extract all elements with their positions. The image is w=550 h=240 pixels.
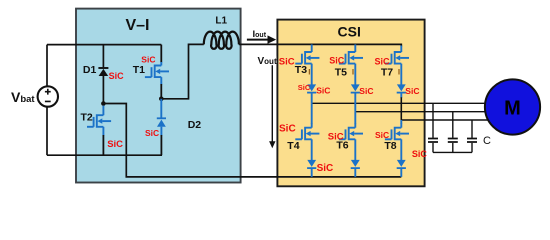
svg-text:SiC: SiC (317, 163, 334, 174)
svg-text:T7: T7 (381, 67, 393, 79)
transistor T2 (87, 106, 111, 136)
wire Vbat top lead (46, 45, 48, 87)
wire leg3 phase to T8 (400, 120, 402, 124)
wire bottom rail Vbat to D2 (47, 154, 162, 156)
arrow Vout (271, 58, 273, 142)
artifact dash T3 (308, 69, 310, 75)
svg-text:T1: T1 (133, 64, 145, 76)
diode of T8 leg (397, 160, 406, 177)
inductor L1 (204, 32, 239, 49)
transistor T3 (295, 44, 319, 84)
svg-text:V–I: V–I (125, 17, 149, 34)
svg-text:SiC: SiC (279, 56, 295, 67)
motor M (485, 79, 540, 134)
artifact dash T5 (352, 69, 354, 75)
node dot D1/T2 (101, 101, 106, 106)
wire node to L1 (161, 44, 204, 98)
capacitor 2 (448, 112, 458, 153)
transistor T5 (339, 44, 363, 84)
svg-text:CSI: CSI (338, 24, 361, 40)
transistor T8 (385, 123, 409, 160)
diode D1 (98, 45, 108, 104)
svg-text:SiC: SiC (412, 149, 428, 159)
transistor T1 (160, 45, 162, 63)
arrow Iout (247, 39, 268, 41)
wire leg1 phase to T4 (311, 103, 313, 123)
phase line 2 (355, 111, 493, 113)
svg-text:SiC: SiC (145, 128, 159, 138)
wire top rail Vbat to T1 (47, 44, 161, 46)
svg-text:T3: T3 (295, 64, 307, 76)
phase line 3 (401, 119, 493, 121)
node dot T1/D2/L1 (159, 97, 164, 102)
svg-text:SiC: SiC (107, 139, 123, 150)
svg-text:SiC: SiC (298, 83, 311, 92)
svg-text:SiC: SiC (359, 86, 373, 96)
svg-text:T5: T5 (335, 67, 347, 79)
transistor T6 (339, 123, 363, 160)
diode of T5 leg (351, 84, 360, 111)
svg-text:SiC: SiC (329, 55, 345, 65)
svg-text:D2: D2 (188, 119, 202, 131)
artifact dash T7 (398, 69, 400, 75)
wire L1 to CSI top rail (239, 44, 401, 46)
CSI box (277, 20, 424, 187)
source Vbat (38, 86, 58, 106)
label Vout (256, 56, 276, 65)
svg-text:T2: T2 (81, 112, 93, 124)
svg-text:SiC: SiC (405, 86, 419, 96)
svg-text:SiC: SiC (375, 130, 389, 140)
svg-text:C: C (483, 135, 491, 147)
diode D2 (157, 99, 166, 136)
svg-text:T4: T4 (287, 140, 299, 152)
svg-text:Vout: Vout (258, 56, 277, 67)
wire leg2 phase to T6 (354, 112, 356, 124)
svg-text:SiC: SiC (375, 56, 391, 66)
diode of T3 leg (307, 84, 316, 103)
svg-text:D1: D1 (83, 64, 97, 76)
svg-text:SiC: SiC (279, 124, 296, 135)
wire leg3 diode to phase line (400, 97, 402, 120)
diode of T7 leg (397, 84, 406, 97)
wire Vbat bottom lead (46, 107, 48, 155)
capacitor 1 (428, 103, 438, 152)
svg-text:L1: L1 (215, 16, 227, 27)
diode of T6 leg (351, 160, 360, 177)
wire node to CSI bottom rail (103, 104, 401, 177)
transistor T4 (295, 123, 319, 160)
svg-text:T6: T6 (336, 140, 348, 152)
svg-text:M: M (504, 97, 521, 119)
V-I converter box (76, 9, 241, 183)
wire capacitor common bar (433, 151, 472, 153)
svg-text:T8: T8 (384, 140, 396, 152)
transistor T7 (385, 46, 409, 85)
diode of T4 leg (307, 160, 316, 177)
svg-text:SiC: SiC (316, 86, 330, 96)
capacitor 3 (467, 120, 477, 152)
phase line 1 (312, 102, 493, 104)
svg-text:SiC: SiC (109, 71, 125, 81)
